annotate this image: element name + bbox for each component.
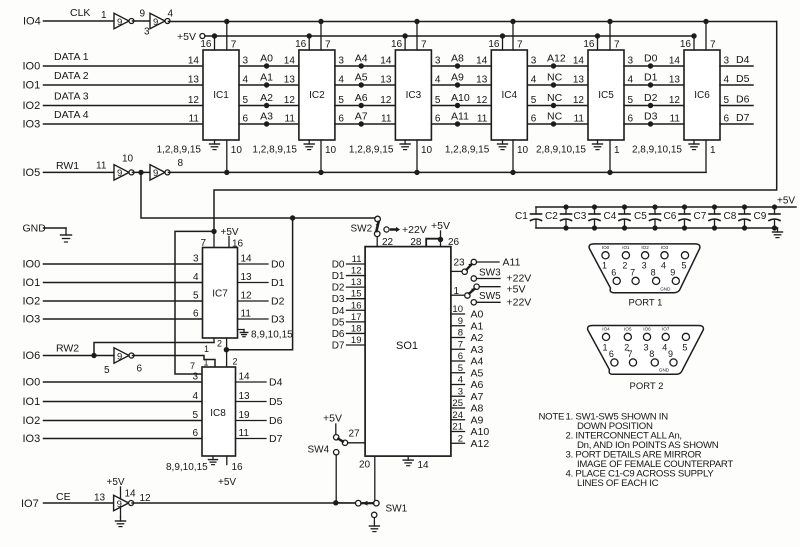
wire to pin 26: [440, 240, 442, 247]
svg-text:8,9,10,15: 8,9,10,15: [251, 330, 293, 341]
svg-text:A0: A0: [260, 53, 273, 65]
svg-text:13: 13: [573, 75, 585, 86]
svg-text:IO4: IO4: [602, 327, 610, 332]
svg-text:D3: D3: [644, 111, 658, 123]
svg-text:D0: D0: [332, 260, 345, 271]
svg-text:D3: D3: [332, 294, 345, 305]
svg-text:C3: C3: [574, 211, 587, 222]
svg-text:D2: D2: [644, 92, 658, 104]
svg-text:3: 3: [193, 254, 199, 265]
svg-text:1,2,8,9,15: 1,2,8,9,15: [445, 145, 490, 156]
svg-text:5: 5: [104, 365, 110, 376]
svg-text:A7: A7: [471, 391, 484, 403]
junction A8 interconnect point: [455, 63, 460, 68]
svg-text:3: 3: [531, 56, 537, 67]
junction CLK bus at IC4 pin7: [510, 19, 515, 24]
SO1 pin 10 / A0: [451, 313, 465, 315]
IC2 buffer: [299, 50, 335, 140]
wire between CLK inverters: [133, 20, 151, 22]
junction C7 bottom: [712, 225, 717, 230]
PORT 2 pin 7: [629, 359, 636, 366]
IC7 pin 14 stub / net D0: [238, 263, 269, 265]
junction A6 interconnect point: [359, 103, 364, 108]
capacitor C5: [654, 207, 656, 214]
svg-text:+22V: +22V: [507, 297, 532, 309]
svg-text:5: 5: [531, 95, 537, 106]
inverter IC9 pin5-6 (RW2): [114, 348, 129, 364]
svg-text:IO6: IO6: [643, 327, 651, 332]
IC1 buffer: [203, 50, 239, 140]
IC7 ground pins 8,9,10,15: [238, 329, 245, 331]
svg-text:5: 5: [435, 95, 441, 106]
PORT 2 pin 4: [662, 333, 669, 340]
svg-text:5: 5: [724, 95, 730, 106]
svg-text:D6: D6: [736, 94, 750, 106]
junction A7 interconnect point: [359, 121, 364, 126]
svg-text:4: 4: [435, 75, 441, 86]
inverter IC9 pin11-10 (RW1): [114, 165, 129, 181]
wire CE line to SW1: [132, 502, 356, 504]
wire CLK branch to IC8 pin7: [175, 231, 214, 374]
capacitor C7: [714, 207, 716, 214]
svg-text:17: 17: [351, 312, 362, 323]
IC3 pin7 stub: [416, 22, 418, 51]
svg-text:12: 12: [188, 95, 200, 106]
svg-text:SW2: SW2: [351, 224, 373, 235]
svg-text:16: 16: [232, 239, 244, 250]
SO1 pin 1 stub: [451, 294, 465, 296]
wire IC5 out row 3 / net D2: [624, 105, 684, 107]
IC4 pin 10 stub to RW1 line: [512, 140, 514, 172]
svg-text:C6: C6: [664, 211, 677, 222]
IC1 pin 10 stub to RW1 line: [226, 140, 228, 172]
svg-text:D0: D0: [644, 53, 658, 65]
IC8 pin stub / net D5: [236, 401, 267, 403]
node A11 (SW3 throw): [477, 261, 500, 263]
svg-text:D4: D4: [269, 377, 283, 389]
svg-text:13: 13: [241, 272, 253, 283]
wire +5V top rail: [205, 35, 694, 37]
svg-text:IC3: IC3: [406, 90, 422, 101]
svg-text:7: 7: [458, 339, 463, 350]
svg-text:9: 9: [153, 168, 158, 179]
svg-text:IO2: IO2: [23, 296, 41, 308]
svg-text:C9: C9: [754, 211, 767, 222]
SO1 pin 24 / A9: [451, 419, 465, 421]
svg-text:DATA 2: DATA 2: [54, 70, 89, 82]
svg-text:A12: A12: [471, 438, 490, 450]
svg-text:RW2: RW2: [56, 343, 79, 355]
wire IO1 to IC7 pin 4: [44, 282, 203, 284]
IC6 pin 1 stub to RW1 line: [705, 140, 707, 172]
svg-text:4: 4: [662, 343, 667, 353]
svg-text:A4: A4: [471, 356, 484, 368]
svg-text:2: 2: [233, 357, 238, 367]
svg-text:6: 6: [531, 114, 537, 125]
svg-text:2,8,9,10,15: 2,8,9,10,15: [536, 145, 586, 156]
svg-text:20: 20: [359, 460, 371, 471]
wire IO3 to IC8 pin 6: [44, 438, 203, 440]
svg-text:D6: D6: [269, 415, 283, 427]
svg-text:+5V: +5V: [221, 227, 239, 238]
wire IC4 out row 2 / net NC: [527, 84, 588, 86]
svg-text:C5: C5: [634, 211, 647, 222]
svg-text:14: 14: [241, 254, 253, 265]
svg-text:16: 16: [583, 39, 595, 50]
svg-text:D7: D7: [269, 433, 283, 445]
svg-text:4: 4: [531, 75, 537, 86]
PORT 2 pin 3: [643, 333, 650, 340]
IC7 pin 11 stub / net D3: [238, 318, 269, 320]
svg-text:A2: A2: [471, 332, 484, 344]
svg-text:16: 16: [232, 462, 244, 473]
wire IC1 out row 4 / net A3: [239, 123, 299, 125]
wire IC4 out row 1 / net A12: [527, 65, 588, 67]
junction C5 bottom: [652, 225, 657, 230]
svg-text:4: 4: [243, 75, 249, 86]
svg-text:D4: D4: [332, 306, 345, 317]
SO1 pin 5 / A5: [451, 372, 465, 374]
wire IC6 out D4: [720, 65, 753, 67]
SO1 pin 8 / A2: [451, 337, 465, 339]
svg-text:10: 10: [122, 154, 134, 165]
junction C3 bottom: [592, 225, 597, 230]
svg-text:14: 14: [669, 56, 681, 67]
wire IC2 out row 4 / net A7: [335, 123, 396, 125]
svg-text:7: 7: [627, 349, 632, 359]
svg-text:10: 10: [452, 304, 463, 315]
IC6 buffer: [684, 50, 720, 140]
svg-text:GND: GND: [659, 368, 670, 373]
IC2 pin 10 stub to RW1 line: [320, 140, 322, 172]
svg-text:C4: C4: [604, 211, 617, 222]
inverter IC9 pin13-12 (CE): [114, 495, 129, 511]
svg-text:22: 22: [382, 237, 394, 248]
IC3 ground (pins 1,2,8,9,15): [404, 140, 406, 144]
IC5 pin 1 stub to RW1 line: [609, 140, 611, 172]
wire SW4 to SO1 pin 27: [348, 442, 365, 444]
svg-text:11: 11: [189, 114, 200, 125]
svg-text:IC7: IC7: [212, 289, 228, 300]
svg-text:A2: A2: [260, 92, 273, 104]
junction C4 top: [622, 204, 627, 209]
SO1 pin 7 / A3: [451, 348, 465, 350]
terminal +22V (SW3 throw): [471, 276, 476, 281]
SO1 pin 19 / D7: [347, 344, 366, 346]
PORT 2 pin 6: [611, 359, 618, 366]
terminal +5V (SW5 throw): [479, 286, 500, 288]
svg-text:+5V: +5V: [107, 477, 125, 488]
svg-text:9: 9: [670, 268, 675, 278]
svg-text:IO3: IO3: [23, 314, 41, 326]
SO1 pin 11 / D0: [347, 263, 366, 265]
svg-text:A1: A1: [260, 72, 273, 84]
svg-text:A4: A4: [355, 53, 368, 65]
junction +5V rail at IC2 pin16: [307, 33, 312, 38]
svg-text:IO6: IO6: [23, 350, 41, 362]
svg-text:CLK: CLK: [70, 7, 90, 19]
svg-text:11: 11: [241, 309, 252, 320]
svg-text:A10: A10: [471, 426, 490, 438]
IC5 ground (pins 2,8,9,10,15): [597, 140, 599, 144]
svg-text:SW4: SW4: [308, 445, 330, 456]
svg-text:IO5: IO5: [624, 327, 632, 332]
svg-text:PORT 2: PORT 2: [630, 381, 664, 392]
svg-text:4: 4: [628, 75, 634, 86]
wire IC6 out D5: [720, 84, 753, 86]
PORT 1 pin 1: [602, 252, 609, 259]
junction CLK bus at IC6 pin7: [703, 19, 708, 24]
SO1 pin 12 / D1: [347, 275, 366, 277]
svg-text:1: 1: [602, 260, 607, 270]
svg-text:5: 5: [628, 95, 634, 106]
junction CLK at IC7 pin7: [211, 229, 216, 234]
svg-text:19: 19: [351, 335, 362, 346]
svg-text:16: 16: [295, 39, 307, 50]
svg-text:3: 3: [643, 343, 648, 353]
svg-text:24: 24: [452, 410, 463, 421]
junction C4 bottom: [622, 225, 627, 230]
svg-text:6: 6: [243, 114, 249, 125]
IC1 pin16 stub: [214, 36, 216, 50]
svg-text:A9: A9: [471, 414, 484, 426]
IC1 pin7 stub: [226, 22, 228, 51]
wire IC3 out row 3 / net A10: [431, 105, 491, 107]
junction C5 top: [652, 204, 657, 209]
junction A2 interconnect point: [264, 103, 269, 108]
svg-text:IO4: IO4: [23, 16, 41, 28]
svg-text:7: 7: [710, 40, 716, 51]
svg-text:11: 11: [96, 161, 107, 172]
svg-text:IO1: IO1: [23, 277, 41, 289]
svg-text:4: 4: [661, 260, 666, 270]
SO1 pin 15 / D3: [347, 298, 366, 300]
svg-text:9: 9: [458, 316, 463, 327]
switch SW4: [334, 435, 339, 440]
svg-text:SO1: SO1: [396, 340, 418, 352]
wire pin2 net to SW2 line: [226, 218, 292, 350]
junction C2 bottom: [563, 225, 568, 230]
svg-text:13: 13: [239, 391, 251, 402]
svg-text:5: 5: [458, 363, 463, 374]
switch SW5: [465, 293, 470, 298]
svg-text:3: 3: [435, 56, 441, 67]
svg-text:D0: D0: [271, 259, 285, 271]
svg-text:9: 9: [117, 351, 122, 362]
IC2 pin7 stub: [320, 22, 322, 51]
IC7 pin7 stub: [213, 231, 215, 247]
wire IC4 out row 3 / net NC: [527, 105, 588, 107]
svg-text:D7: D7: [736, 112, 750, 124]
svg-text:14: 14: [418, 460, 430, 471]
wire IC4 out row 4 / net NC: [527, 123, 588, 125]
svg-text:4: 4: [724, 75, 730, 86]
inverter IC9 pin9-8 (RW1): [150, 165, 165, 181]
svg-text:13: 13: [94, 493, 106, 504]
svg-text:12: 12: [669, 95, 681, 106]
svg-text:IC4: IC4: [502, 90, 518, 101]
svg-text:NOTE: NOTE: [539, 411, 565, 422]
svg-text:8,9,10,15: 8,9,10,15: [166, 462, 208, 473]
SO1 pin 14 ground: [407, 456, 409, 460]
svg-text:IO5: IO5: [23, 167, 41, 179]
svg-text:1: 1: [454, 286, 460, 297]
svg-text:A11: A11: [451, 111, 469, 123]
wire IO2 to IC7 pin 5: [44, 300, 203, 302]
svg-text:+5V: +5V: [777, 196, 795, 207]
IC3 buffer: [395, 50, 431, 140]
SO1 pin 9 / A1: [451, 325, 465, 327]
svg-text:3: 3: [338, 56, 344, 67]
IC6 pin7 stub: [705, 22, 707, 51]
wire IO4 to inverter: [44, 20, 115, 22]
junction CLK bus at IC2 pin7: [318, 19, 323, 24]
svg-text:1: 1: [101, 10, 107, 21]
junction C7 top: [712, 204, 717, 209]
svg-text:9: 9: [140, 9, 146, 20]
junction C8 top: [742, 204, 747, 209]
switch SW1: [356, 500, 362, 506]
junction +5V rail at IC5 pin16: [595, 33, 600, 38]
wire IC2 out row 1 / net A4: [335, 65, 396, 67]
svg-text:4: 4: [458, 375, 463, 386]
svg-text:IC5: IC5: [598, 90, 614, 101]
junction C9 top: [772, 204, 777, 209]
wire IC1 out row 1 / net A0: [239, 65, 299, 67]
capacitor C1: [535, 207, 537, 214]
svg-text:A3: A3: [260, 111, 273, 123]
junction +5V pin26/28: [438, 237, 443, 242]
svg-text:9: 9: [153, 17, 158, 28]
svg-text:PORT 1: PORT 1: [629, 297, 663, 308]
svg-text:8: 8: [178, 158, 184, 169]
PORT 1 pin 7: [632, 277, 639, 284]
svg-text:NC: NC: [547, 92, 563, 104]
capacitor C2: [565, 207, 567, 214]
svg-text:+5V: +5V: [507, 284, 526, 296]
svg-text:2: 2: [622, 260, 627, 270]
svg-text:3: 3: [144, 27, 150, 38]
wire DATA 2: [44, 84, 204, 86]
wire IO2 to IC8 pin 5: [44, 420, 203, 422]
SO1 pin 4 / A6: [451, 384, 465, 386]
SO1 pin 23 stub: [451, 270, 462, 272]
capacitor C9: [774, 207, 776, 214]
svg-text:6: 6: [435, 114, 441, 125]
SO1 pin 22 stub: [376, 236, 378, 246]
svg-text:6: 6: [193, 309, 199, 320]
svg-text:14: 14: [573, 56, 585, 67]
svg-text:14: 14: [380, 56, 392, 67]
svg-text:A12: A12: [547, 53, 566, 65]
svg-text:A6: A6: [471, 379, 484, 391]
svg-text:21: 21: [452, 422, 463, 433]
wire IC1 out row 2 / net A1: [239, 84, 299, 86]
junction C3 top: [592, 204, 597, 209]
IC3 pin16 stub: [404, 36, 406, 50]
svg-text:9: 9: [117, 168, 122, 179]
svg-text:IC2: IC2: [309, 90, 325, 101]
switch SW3: [462, 269, 467, 274]
svg-text:IC1: IC1: [213, 90, 229, 101]
svg-text:A5: A5: [471, 367, 484, 379]
wire IC6 out D6: [720, 105, 753, 107]
junction CLK bus at IC5 pin7: [607, 19, 612, 24]
svg-text:+22V: +22V: [402, 224, 427, 236]
svg-text:GND: GND: [660, 286, 671, 291]
svg-text:IO3: IO3: [23, 433, 41, 445]
IC5 pin7 stub: [609, 22, 611, 51]
junction +5V rail at IC3 pin16: [402, 33, 407, 38]
IC6 ground (pins 2,8,9,10,15): [693, 140, 695, 144]
svg-text:7: 7: [231, 40, 237, 51]
svg-text:C1: C1: [515, 211, 528, 222]
svg-text:LINES OF EACH IC: LINES OF EACH IC: [577, 478, 659, 489]
wire RW1 tap down to SW2 line: [141, 172, 378, 218]
svg-text:13: 13: [669, 75, 681, 86]
switch SW1 lower throw to ground: [372, 512, 377, 517]
junction A0 interconnect point: [264, 63, 269, 68]
svg-text:4: 4: [193, 272, 199, 283]
svg-text:NC: NC: [547, 111, 563, 123]
IC8 pin stub / net D4: [236, 381, 267, 383]
PORT 1 pin 4: [661, 252, 668, 259]
svg-text:6: 6: [609, 349, 614, 359]
svg-text:6: 6: [458, 351, 463, 362]
svg-text:IO2: IO2: [641, 245, 649, 250]
PORT 1 pin 3: [642, 252, 649, 259]
svg-text:6: 6: [137, 364, 143, 375]
svg-text:1: 1: [710, 145, 716, 156]
svg-text:14: 14: [188, 56, 200, 67]
wire IC2 out row 3 / net A6: [335, 105, 396, 107]
junction D1 interconnect point: [648, 82, 653, 87]
svg-text:16: 16: [200, 39, 212, 50]
IC4 buffer: [491, 50, 527, 140]
svg-text:D2: D2: [332, 283, 345, 294]
svg-text:SW1: SW1: [386, 504, 408, 515]
IC5 buffer: [588, 50, 624, 140]
svg-text:5: 5: [192, 410, 198, 421]
IC7 pin 12 stub / net D2: [238, 300, 269, 302]
svg-text:SW5: SW5: [479, 291, 501, 302]
svg-text:D1: D1: [271, 277, 285, 289]
wire IO7 input: [44, 502, 114, 504]
svg-text:6: 6: [192, 428, 198, 439]
svg-text:1,2,8,9,15: 1,2,8,9,15: [349, 145, 394, 156]
svg-text:5: 5: [338, 95, 344, 106]
svg-text:10: 10: [421, 145, 433, 156]
wire IO5 input: [44, 171, 115, 173]
svg-text:IO7: IO7: [21, 498, 39, 510]
SO1 pin 25 / A8: [451, 407, 465, 409]
IC8 ground pins 8,9,10,15: [212, 456, 214, 460]
svg-text:11: 11: [670, 114, 681, 125]
svg-text:IC8: IC8: [210, 408, 226, 419]
svg-text:CE: CE: [56, 491, 71, 503]
junction RW1 at IC3: [414, 170, 419, 175]
svg-text:2,8,9,10,15: 2,8,9,10,15: [632, 145, 682, 156]
svg-text:SW3: SW3: [479, 268, 501, 279]
junction A9 interconnect point: [455, 82, 460, 87]
IC7 pin2 stub: [226, 338, 228, 350]
wire IO3 to IC7 pin 6: [44, 318, 203, 320]
junction A4 interconnect point: [359, 63, 364, 68]
svg-text:7: 7: [614, 40, 620, 51]
ground (CE inverter): [120, 507, 122, 517]
IC4 pin16 stub: [502, 36, 504, 50]
svg-text:IO7: IO7: [662, 327, 670, 332]
